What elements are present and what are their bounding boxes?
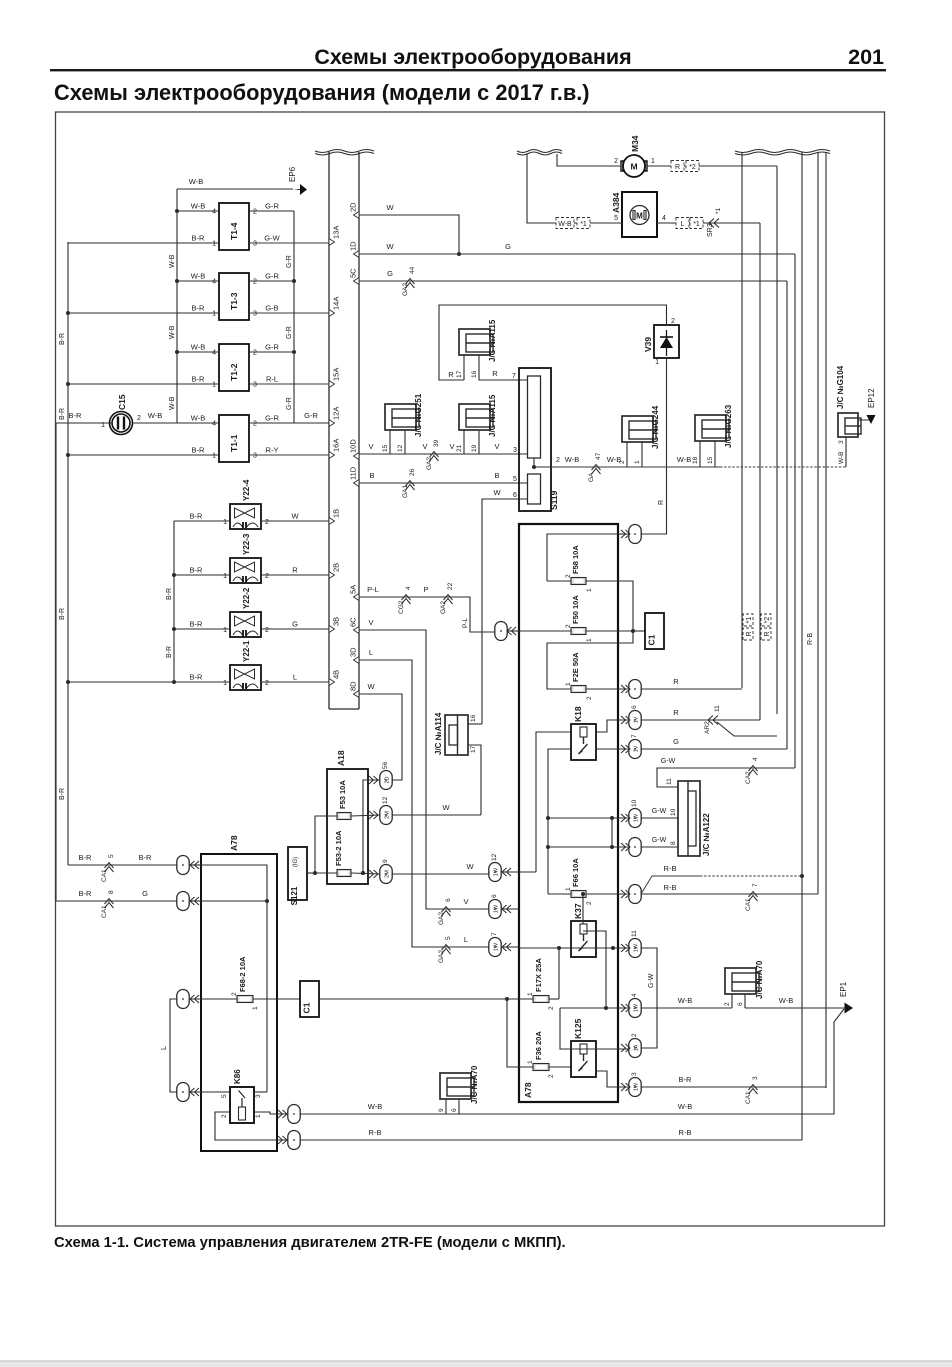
svg-text:9: 9: [438, 1108, 445, 1112]
svg-text:6: 6: [513, 492, 517, 499]
svg-text:T1-2: T1-2: [229, 363, 239, 381]
page-break squiggle top right: [735, 150, 830, 153]
junction connector J/C G251: [385, 404, 416, 430]
svg-text:39: 39: [433, 439, 440, 447]
wire R from M34 with labels: [647, 165, 777, 167]
svg-text:W: W: [442, 803, 450, 812]
svg-text:6: 6: [445, 898, 452, 902]
ignition coil T1-1: [219, 415, 249, 462]
relay K18: [571, 724, 596, 760]
svg-text:M: M: [636, 212, 643, 221]
svg-text:1W: 1W: [494, 867, 500, 876]
junction connector J/C G244: [622, 416, 653, 442]
K37 coil feed from F66: [582, 894, 584, 924]
svg-text:44: 44: [409, 266, 416, 274]
A115 lower pin 19 wire: [478, 430, 480, 454]
svg-text:G-W: G-W: [652, 808, 667, 815]
svg-text:2: 2: [253, 350, 257, 357]
svg-text:G: G: [142, 889, 148, 898]
svg-text:16A: 16A: [332, 439, 341, 452]
svg-text:GA2: GA2: [438, 912, 445, 925]
connector oval A78 right R-B: [288, 1131, 300, 1150]
svg-text:J/C №A115: J/C №A115: [488, 394, 497, 437]
svg-text:V: V: [368, 618, 373, 627]
svg-text:W-B: W-B: [191, 414, 205, 423]
wire W-B to EP1 arrow: [745, 1007, 845, 1009]
svg-text:6: 6: [491, 894, 498, 898]
svg-text:C1: C1: [647, 634, 657, 645]
A114 pin 17 wire W down: [468, 745, 481, 815]
svg-text:4: 4: [405, 586, 412, 590]
wire L loop outside A78: [170, 999, 177, 1092]
svg-text:4: 4: [631, 993, 638, 997]
svg-text:L: L: [464, 935, 468, 944]
svg-text:R-Y: R-Y: [266, 446, 279, 455]
wire R-B bottom to rail: [300, 1139, 802, 1141]
svg-text:1B: 1B: [332, 509, 341, 518]
svg-text:1: 1: [223, 680, 227, 687]
splice CA1-8: [105, 899, 114, 909]
svg-text:V: V: [368, 442, 373, 451]
svg-text:13A: 13A: [332, 226, 341, 239]
shield splice SR3: [709, 219, 719, 228]
svg-text:R: R: [492, 369, 498, 378]
svg-text:2: 2: [221, 1114, 228, 1118]
svg-text:12: 12: [397, 444, 404, 452]
svg-text:S119: S119: [549, 490, 559, 510]
svg-text:W-B: W-B: [779, 996, 793, 1005]
svg-text:S121: S121: [290, 886, 299, 905]
svg-text:GA2: GA2: [402, 283, 409, 296]
svg-text:T1-4: T1-4: [229, 222, 239, 240]
svg-text:2D: 2D: [385, 776, 391, 783]
bus pin 4B: [329, 679, 335, 686]
svg-text:1: 1: [527, 1060, 534, 1064]
wire G-W from 1W-10 to A122 pin 10: [641, 817, 678, 819]
svg-text:1: 1: [223, 519, 227, 526]
wire L to ECU oval: [441, 946, 489, 948]
wire G-W branch: [611, 818, 613, 847]
wire G rail down 2: [786, 281, 788, 749]
svg-text:A78: A78: [229, 835, 239, 851]
svg-text:J/C №A70: J/C №A70: [755, 960, 764, 999]
A70 lower pin 9 wire: [445, 1099, 447, 1114]
wire R from 1V-6 to splice AR2-11: [641, 719, 760, 721]
svg-text:7: 7: [631, 734, 638, 738]
svg-text:2: 2: [253, 421, 257, 428]
wire R rail right: [776, 166, 778, 714]
A18 internal wire from 2D-56: [363, 780, 380, 873]
fuse box A18: [327, 769, 368, 884]
svg-text:Y22-3: Y22-3: [242, 533, 251, 555]
svg-text:3D: 3D: [349, 647, 358, 657]
fuse F68-2 10A circuit: [190, 998, 237, 1000]
wire W-B bottom to EP1: [300, 1022, 834, 1114]
svg-text:G-W: G-W: [264, 234, 280, 243]
svg-text:L: L: [681, 221, 685, 228]
wire from C1 into ECU: [319, 998, 507, 1000]
svg-text:W: W: [466, 862, 474, 871]
T1-4 pin 2 wire G-R: [249, 210, 294, 212]
svg-text:1: 1: [223, 573, 227, 580]
svg-text:W-B: W-B: [368, 1102, 382, 1111]
svg-text:CA1: CA1: [101, 869, 108, 882]
svg-text:9: 9: [382, 859, 389, 863]
svg-text:2M: 2M: [385, 870, 391, 878]
svg-text:15A: 15A: [332, 368, 341, 381]
Y22-2 pin 1 wire B-R: [174, 628, 230, 630]
ignition coil T1-4: [219, 203, 249, 250]
svg-text:1: 1: [223, 627, 227, 634]
svg-text:F68-2 10A: F68-2 10A: [238, 956, 247, 992]
svg-text:18: 18: [692, 456, 699, 464]
svg-text:GA2: GA2: [438, 950, 445, 963]
svg-text:*2: *2: [764, 617, 771, 624]
K18 coil wire junction: [519, 871, 536, 873]
A115 upper pin 17 wire: [463, 355, 465, 380]
A70 lower pin 6 wire: [458, 1099, 460, 1114]
svg-text:AR2: AR2: [704, 721, 711, 734]
svg-text:V39: V39: [643, 337, 653, 352]
svg-text:Y22-2: Y22-2: [242, 587, 251, 609]
svg-text:12: 12: [491, 853, 498, 861]
page header rule: [50, 69, 886, 71]
page-break squiggle top left: [517, 150, 562, 153]
svg-text:G-R: G-R: [304, 411, 318, 420]
bus pin 3B: [329, 626, 335, 633]
svg-text:R-B: R-B: [664, 883, 677, 892]
T1-2 pin 2 wire G-R: [249, 351, 294, 353]
svg-text:B-R: B-R: [192, 446, 206, 455]
bottom page bar: [0, 1361, 952, 1367]
ground arrow EP1: [845, 1003, 854, 1014]
Y22-3 pin 1 wire B-R: [174, 574, 230, 576]
wire B-R from 1W-3: [641, 1086, 826, 1088]
svg-text:G-R: G-R: [265, 414, 279, 423]
svg-text:B-R: B-R: [79, 853, 93, 862]
wire V39 top to A115: [439, 305, 667, 380]
svg-text:*1: *1: [746, 617, 753, 624]
connector oval A78-4: [177, 1083, 189, 1102]
svg-text:G-R: G-R: [265, 343, 279, 352]
svg-text:F58 10A: F58 10A: [571, 545, 580, 574]
svg-text:2: 2: [253, 209, 257, 216]
svg-text:1: 1: [212, 241, 216, 248]
relay block A78 main box: [519, 524, 618, 1102]
svg-text:W-B: W-B: [148, 411, 162, 420]
fuse F66 10A circuit: [547, 847, 549, 894]
connector oval 1 (F66 out): [629, 885, 641, 904]
injector Y22-1: [230, 665, 261, 690]
svg-text:G-B: G-B: [265, 304, 278, 313]
page-break squiggle A384 drop: [527, 154, 552, 223]
T1-2 pin 3 wire R-L: [249, 383, 329, 385]
wire R-B upper from F66 oval: [641, 876, 700, 894]
svg-text:G: G: [673, 737, 679, 746]
wire G from bus 5C: [359, 280, 787, 282]
junction connector J/C A115 lower: [459, 404, 490, 430]
bus pin 1D: [354, 251, 360, 258]
wire B-R left rail: [67, 242, 69, 865]
svg-text:8D: 8D: [349, 681, 358, 691]
svg-text:SR3: SR3: [707, 223, 714, 237]
svg-text:5: 5: [513, 476, 517, 483]
ECU left connector oval 1W-7: [489, 938, 501, 957]
svg-text:17: 17: [470, 745, 477, 753]
splice CA1-5: [105, 863, 114, 873]
svg-text:5: 5: [614, 215, 618, 222]
wire B-R C15 ground rail: [55, 423, 57, 901]
K125 output wire: [596, 1071, 628, 1087]
splice GA1-26: [406, 481, 415, 491]
diode V39: [654, 325, 679, 358]
K86 pin 3 wire: [254, 1091, 267, 1093]
svg-text:8: 8: [108, 890, 115, 894]
svg-text:4: 4: [212, 209, 216, 216]
svg-text:CG2: CG2: [398, 600, 405, 614]
junction connector J/C A70 lower: [440, 1073, 471, 1099]
svg-text:K18: K18: [573, 706, 583, 722]
right rail 3: [817, 152, 819, 894]
fuse F2E 50A circuit: [547, 631, 633, 689]
connector C1 left: [300, 981, 319, 1017]
A18 internal wire F53: [315, 816, 337, 873]
svg-text:W-B: W-B: [677, 455, 691, 464]
svg-text:5C: 5C: [349, 268, 358, 278]
svg-text:1: 1: [212, 311, 216, 318]
svg-text:3B: 3B: [332, 617, 341, 626]
wire V to ECU oval: [441, 908, 489, 910]
wire R-B lower: [641, 893, 818, 895]
fuse F53-2 10A: [337, 870, 351, 877]
svg-text:V: V: [449, 442, 454, 451]
svg-text:17: 17: [456, 370, 463, 378]
svg-text:V: V: [422, 442, 427, 451]
svg-text:1W: 1W: [634, 813, 640, 822]
ECM A78 box: [201, 854, 277, 1151]
bus pin 5C: [354, 278, 360, 285]
svg-text:W-B: W-B: [838, 451, 845, 464]
svg-text:GA2: GA2: [440, 601, 447, 614]
svg-text:J/C №A70: J/C №A70: [470, 1065, 479, 1104]
svg-text:2: 2: [556, 457, 560, 464]
svg-text:*1: *1: [715, 207, 722, 214]
splice GA2-6: [442, 907, 451, 917]
svg-text:B-R: B-R: [190, 673, 204, 682]
svg-text:3: 3: [253, 241, 257, 248]
K18 switch wire to 1V-7: [595, 748, 628, 750]
K18 contact wire to 1V-6: [596, 720, 628, 732]
svg-text:5A: 5A: [349, 585, 358, 594]
svg-text:3: 3: [752, 1076, 759, 1080]
svg-text:1W: 1W: [634, 1082, 640, 1091]
svg-text:W-B: W-B: [191, 343, 205, 352]
svg-text:F17X 25A: F17X 25A: [534, 958, 543, 992]
T1-4 pin 3 wire G-W: [249, 242, 329, 244]
T1-3 pin 4 wire W-B: [177, 280, 219, 282]
svg-text:GA: GA: [588, 472, 595, 482]
A70 upper pin 2 wire: [731, 994, 733, 1008]
wire B-R G into A78 oval 2: [56, 900, 177, 902]
splice GA2-39: [430, 452, 439, 462]
svg-text:12A: 12A: [332, 407, 341, 420]
svg-text:F53-2 10A: F53-2 10A: [334, 830, 343, 866]
svg-text:11: 11: [714, 705, 721, 712]
svg-text:6: 6: [737, 1002, 744, 1006]
wire B-R injector feed to left rail: [68, 681, 174, 683]
svg-text:W-B: W-B: [558, 221, 572, 228]
connector oval A78-3: [177, 990, 189, 1009]
Y22-1 pin 2 wire L: [261, 681, 329, 683]
G104 pin 3 wire W-B: [845, 437, 847, 467]
svg-text:EP6: EP6: [288, 166, 297, 182]
dashed label R *1 on rail: [743, 614, 753, 640]
svg-text:3: 3: [631, 1072, 638, 1076]
svg-text:J/C №G263: J/C №G263: [724, 404, 733, 448]
splice GA2-44: [406, 279, 415, 289]
svg-text:8: 8: [670, 841, 677, 845]
svg-text:7: 7: [752, 883, 759, 887]
wire L node through K37: [519, 947, 628, 949]
svg-text:14A: 14A: [332, 297, 341, 310]
splice CG2-4: [402, 595, 411, 605]
svg-text:3: 3: [838, 440, 845, 444]
svg-text:GA1: GA1: [402, 485, 409, 498]
svg-text:W-B: W-B: [191, 202, 205, 211]
G244 pin 1 wire: [641, 442, 643, 467]
svg-text:2: 2: [253, 279, 257, 286]
svg-text:W: W: [367, 682, 375, 691]
svg-text:R-B: R-B: [369, 1128, 382, 1137]
svg-text:R-L: R-L: [266, 375, 278, 384]
svg-text:W-B: W-B: [189, 177, 203, 186]
svg-text:W-B: W-B: [678, 1102, 692, 1111]
svg-text:6: 6: [451, 1108, 458, 1112]
svg-text:R: R: [746, 631, 753, 636]
svg-text:2: 2: [619, 460, 626, 464]
svg-text:1: 1: [212, 453, 216, 460]
connector oval 1W-4: [629, 999, 641, 1018]
svg-text:G-W: G-W: [652, 837, 667, 844]
K86 pin 5 wire: [190, 1091, 230, 1093]
right rail 1: [741, 152, 743, 688]
svg-text:F53 10A: F53 10A: [338, 780, 347, 809]
svg-text:1W: 1W: [634, 1003, 640, 1012]
svg-text:56: 56: [382, 761, 389, 769]
svg-text:J/C №A122: J/C №A122: [702, 813, 711, 856]
svg-text:Схемы электрооборудования: Схемы электрооборудования: [314, 45, 631, 69]
svg-text:1: 1: [586, 638, 593, 642]
wire to connector C1: [633, 630, 645, 632]
battery terminal S121: [288, 847, 307, 900]
svg-text:B-R: B-R: [192, 234, 206, 243]
svg-text:6: 6: [631, 705, 638, 709]
svg-text:B-R: B-R: [79, 889, 93, 898]
svg-text:G: G: [387, 269, 393, 278]
wire W-B rail feeding coils: [176, 189, 178, 423]
wire W from S119 pin 6: [482, 499, 527, 724]
svg-text:4B: 4B: [332, 670, 341, 679]
svg-text:Y22-1: Y22-1: [242, 640, 251, 662]
splice AR2-11: [708, 716, 718, 725]
svg-text:5: 5: [445, 936, 452, 940]
T1-1 pin 3 wire R-Y: [249, 454, 329, 456]
wire W from bus 8D to A18: [359, 694, 402, 780]
svg-text:G: G: [505, 242, 511, 251]
svg-text:1W: 1W: [494, 904, 500, 913]
svg-text:L: L: [161, 1046, 168, 1050]
svg-text:2: 2: [724, 1002, 731, 1006]
right rail 4: [825, 152, 827, 1088]
svg-text:2: 2: [586, 901, 593, 905]
svg-text:Схемы электрооборудования (мод: Схемы электрооборудования (модели с 2017…: [54, 80, 590, 105]
svg-text:J/C №G244: J/C №G244: [651, 405, 660, 449]
wire L from bus 3D: [359, 660, 441, 947]
right rail 2: [801, 152, 803, 1140]
ground arrow EP12: [858, 415, 871, 420]
svg-text:15: 15: [382, 444, 389, 452]
svg-text:1W: 1W: [634, 943, 640, 952]
svg-text:1: 1: [651, 158, 655, 165]
svg-text:1V: 1V: [634, 716, 640, 723]
svg-text:EP1: EP1: [839, 981, 848, 997]
wire G from bus 1D: [359, 253, 795, 255]
svg-text:B: B: [369, 471, 374, 480]
svg-text:2: 2: [137, 415, 141, 422]
svg-text:*1: *1: [693, 221, 700, 228]
svg-text:1: 1: [101, 422, 105, 429]
svg-text:1: 1: [586, 588, 593, 592]
bus pin 10D: [354, 453, 360, 460]
ECU left connector oval 1W-12: [489, 863, 501, 882]
svg-text:2M: 2M: [385, 811, 391, 819]
svg-text:*2: *2: [689, 164, 696, 171]
svg-text:W: W: [386, 242, 394, 251]
svg-text:F66 10A: F66 10A: [571, 858, 580, 887]
A115 lower pin 21 wire: [463, 430, 465, 454]
wire R splice branch to rail: [717, 722, 777, 736]
G244 pin 2 wire: [626, 442, 628, 467]
injector Y22-4: [230, 504, 261, 529]
G263 pin 18 wire: [699, 441, 701, 467]
svg-text:1W: 1W: [494, 942, 500, 951]
svg-text:G: G: [292, 620, 298, 629]
T1-1 pin 4 wire W-B: [177, 422, 219, 424]
svg-text:R: R: [448, 370, 454, 379]
svg-text:G-W: G-W: [648, 973, 655, 988]
svg-text:B-R: B-R: [59, 788, 66, 800]
A70 upper pin 6 wire: [744, 994, 746, 1008]
G251 pin 12 wire: [404, 430, 406, 454]
T1-2 pin 4 wire W-B: [177, 351, 219, 353]
svg-text:B-R: B-R: [192, 304, 206, 313]
svg-text:2: 2: [586, 696, 593, 700]
connector oval A78-1: [177, 856, 189, 875]
throttle actuator A384: [622, 192, 657, 237]
svg-text:2: 2: [631, 1033, 638, 1037]
svg-text:G-R: G-R: [286, 397, 293, 410]
K86 pin 1 wire: [254, 1112, 288, 1114]
svg-text:19: 19: [471, 444, 478, 452]
svg-text:5: 5: [108, 854, 115, 858]
svg-text:M34: M34: [630, 135, 640, 152]
svg-text:47: 47: [595, 452, 602, 460]
wire V from bus 6C: [359, 630, 441, 909]
A78 internal feed rail: [201, 865, 267, 1092]
bus pin 2B: [329, 572, 335, 579]
svg-text:B-R: B-R: [69, 411, 83, 420]
fuse F50 10A circuit: [495, 622, 507, 641]
